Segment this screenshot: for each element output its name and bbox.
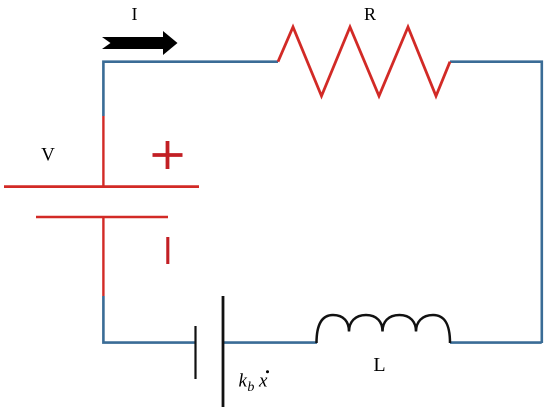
wire: left red segment above battery xyxy=(102,116,104,187)
inductor L xyxy=(317,315,451,343)
resistor R xyxy=(278,27,450,96)
battery minus sign xyxy=(166,237,169,264)
battery V short plate xyxy=(36,216,168,218)
wire: left red segment below battery xyxy=(102,217,104,296)
svg-text:kb x: kb x xyxy=(239,371,268,396)
battery plus sign xyxy=(153,141,183,169)
dot above x of kb x-dot xyxy=(266,370,269,373)
battery V long plate xyxy=(4,185,199,188)
wire: bottom left blue segment xyxy=(103,296,195,343)
svg-text:R: R xyxy=(364,4,376,24)
wire: bottom right blue segment xyxy=(450,341,542,344)
wire: top right blue segment xyxy=(450,62,542,343)
current arrow xyxy=(102,31,178,55)
back-emf long plate xyxy=(222,296,225,407)
svg-text:L: L xyxy=(373,354,385,376)
wire: top left blue segment xyxy=(103,62,278,116)
svg-text:I: I xyxy=(132,4,138,24)
svg-text:V: V xyxy=(41,145,55,166)
back-emf short plate xyxy=(194,326,196,379)
wire: bottom middle blue segment (long plate to inductor) xyxy=(223,341,317,344)
